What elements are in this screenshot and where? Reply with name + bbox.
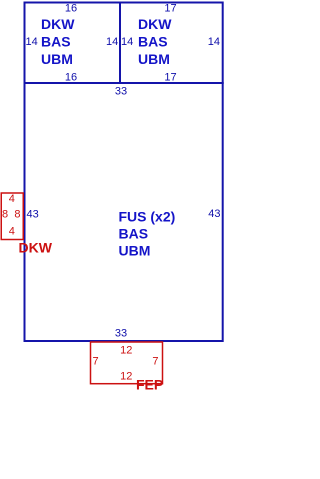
svg-text:16: 16	[65, 3, 77, 15]
svg-text:12: 12	[120, 345, 132, 357]
svg-text:FEP: FEP	[136, 377, 163, 393]
svg-text:33: 33	[115, 328, 127, 340]
room box FUS (large)	[25, 83, 223, 341]
room box DKW-1 (top-left)	[25, 3, 121, 84]
svg-text:DKW: DKW	[41, 16, 75, 32]
svg-text:BAS: BAS	[138, 34, 168, 50]
svg-text:7: 7	[93, 356, 99, 368]
svg-text:UBM: UBM	[119, 243, 151, 259]
svg-text:UBM: UBM	[41, 51, 73, 67]
svg-text:8: 8	[2, 209, 8, 221]
svg-text:17: 17	[164, 72, 176, 84]
svg-text:UBM: UBM	[138, 51, 170, 67]
svg-text:14: 14	[106, 36, 118, 48]
annotation box FEP (bottom, red)	[91, 342, 163, 384]
svg-text:12: 12	[120, 371, 132, 383]
annotation box DKW (left, red)	[1, 193, 23, 240]
svg-text:43: 43	[27, 209, 39, 221]
svg-text:14: 14	[208, 36, 220, 48]
svg-text:14: 14	[121, 36, 133, 48]
svg-text:BAS: BAS	[119, 226, 149, 242]
svg-text:DKW: DKW	[138, 16, 172, 32]
svg-text:BAS: BAS	[41, 34, 71, 50]
svg-text:DKW: DKW	[19, 240, 53, 256]
svg-text:4: 4	[9, 226, 15, 238]
svg-text:7: 7	[152, 356, 158, 368]
svg-text:8: 8	[14, 209, 20, 221]
svg-text:14: 14	[26, 36, 38, 48]
svg-text:16: 16	[65, 72, 77, 84]
room box DKW-2 (top-right)	[120, 3, 223, 84]
svg-text:33: 33	[115, 86, 127, 98]
svg-text:17: 17	[164, 3, 176, 15]
svg-text:43: 43	[208, 208, 220, 220]
svg-text:4: 4	[9, 193, 15, 205]
svg-text:FUS (x2): FUS (x2)	[119, 209, 176, 225]
